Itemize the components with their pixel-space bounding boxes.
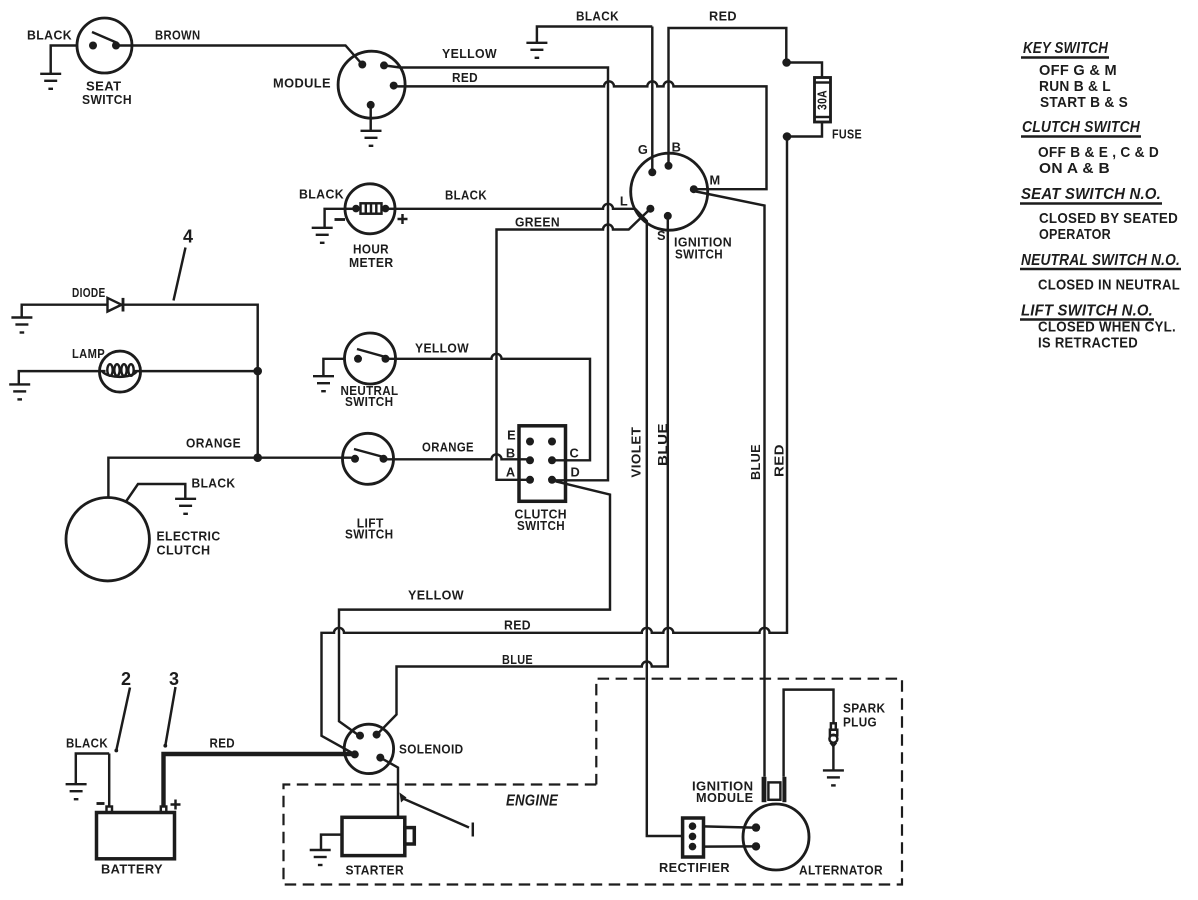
wire ignition G pin up [651, 27, 653, 173]
svg-text:ON A & B: ON A & B [1039, 161, 1110, 177]
battery plus sign [171, 800, 181, 810]
ground (starter) [310, 850, 331, 865]
svg-text:CLUTCH: CLUTCH [157, 543, 211, 558]
svg-text:BLACK: BLACK [27, 28, 72, 43]
ignition switch pin S [664, 212, 672, 220]
ground (hour meter) [312, 228, 333, 243]
svg-text:CLUTCH SWITCH: CLUTCH SWITCH [1022, 119, 1140, 136]
battery negative post [107, 807, 113, 813]
label 1 [472, 823, 474, 837]
svg-text:START B & S: START B & S [1040, 95, 1128, 111]
svg-text:FUSE: FUSE [832, 127, 862, 142]
electric clutch circle [66, 498, 149, 581]
seat switch blade [92, 32, 118, 43]
node lamp junction [253, 367, 262, 376]
svg-text:SWITCH: SWITCH [517, 518, 565, 533]
hour meter plus sign [398, 214, 408, 224]
leader line for 1 [403, 799, 469, 828]
fuse F1 30A body [815, 78, 831, 123]
svg-text:GREEN: GREEN [515, 215, 560, 230]
leader line for 4 [174, 248, 186, 301]
wire starter to ground [321, 835, 342, 850]
wire ignition module to spark plug [784, 690, 834, 777]
svg-text:ELECTRIC: ELECTRIC [157, 529, 221, 544]
lift switch blade [354, 449, 385, 457]
ground (seat switch) [40, 74, 61, 89]
ignition switch S1 circle [631, 153, 708, 230]
lift switch right contact [380, 455, 388, 463]
alternator pin top [752, 823, 760, 831]
wire VIOLET hour meter to rectifier with hop [395, 204, 683, 836]
svg-text:BLACK: BLACK [299, 187, 344, 202]
svg-text:LIFT SWITCH N.O.: LIFT SWITCH N.O. [1021, 303, 1153, 320]
diode D1 [108, 298, 122, 312]
wire BLACK top to ignition G [537, 27, 652, 43]
clutch switch pin top-right [548, 438, 556, 446]
svg-text:B: B [672, 140, 682, 155]
svg-text:RED: RED [210, 736, 236, 751]
lamp filament [103, 372, 137, 377]
leader line for 3 [166, 687, 176, 745]
wire YELLOW module to clutch switch D via vertical [384, 65, 608, 480]
solenoid pin top-left [356, 732, 364, 740]
svg-text:SWITCH: SWITCH [345, 394, 394, 409]
ground (neutral switch) [313, 376, 334, 391]
svg-text:PLUG: PLUG [843, 715, 877, 730]
svg-text:ENGINE: ENGINE [506, 793, 558, 810]
wire RED battery positive to solenoid (thick) [164, 754, 353, 807]
svg-text:BLUE: BLUE [655, 423, 670, 466]
clutch switch box [519, 426, 566, 502]
svg-text:SWITCH: SWITCH [675, 247, 723, 262]
svg-text:ALTERNATOR: ALTERNATOR [799, 863, 883, 878]
svg-text:YELLOW: YELLOW [442, 46, 497, 61]
svg-text:STARTER: STARTER [346, 863, 405, 878]
battery minus sign [97, 802, 105, 805]
svg-text:RECTIFIER: RECTIFIER [659, 860, 730, 875]
clutch switch pin E [526, 438, 534, 446]
svg-text:SWITCH: SWITCH [82, 92, 132, 107]
svg-text:LAMP: LAMP [72, 346, 105, 361]
neutral switch blade [357, 349, 387, 357]
svg-text:A: A [506, 465, 516, 480]
wire junction down to orange wire [256, 371, 258, 458]
svg-text:G: G [638, 142, 648, 157]
battery B1 [97, 813, 175, 859]
solenoid pin top-right [373, 731, 381, 739]
ground (top black wire) [526, 43, 547, 58]
ground (electric clutch) [175, 499, 196, 514]
ground (diode) [11, 318, 32, 333]
svg-text:VIOLET: VIOLET [629, 427, 644, 478]
svg-text:YELLOW: YELLOW [415, 341, 469, 356]
svg-text:RED: RED [504, 618, 531, 633]
alternator pin bottom [752, 842, 760, 850]
wire fuse bottom to junction [787, 122, 822, 137]
wire RED top from B to fuse junction [669, 28, 787, 166]
svg-text:SPARK: SPARK [843, 701, 886, 716]
wire battery negative terminal [108, 754, 110, 808]
ground (lamp) [9, 384, 30, 399]
hour meter minus sign [335, 218, 346, 221]
svg-text:E: E [507, 428, 516, 443]
wire seat switch to ground [51, 46, 77, 74]
svg-text:MODULE: MODULE [273, 76, 331, 91]
node orange junction [253, 453, 262, 462]
svg-text:B: B [506, 446, 516, 461]
svg-text:BATTERY: BATTERY [101, 862, 163, 877]
svg-text:C: C [570, 446, 580, 461]
svg-text:MODULE: MODULE [696, 790, 754, 805]
solenoid circle [344, 724, 393, 773]
svg-text:L: L [620, 194, 628, 209]
svg-text:BLACK: BLACK [192, 476, 236, 491]
svg-text:RED: RED [452, 70, 478, 85]
ignition switch pin B [665, 162, 673, 170]
leader line for 2 [117, 688, 131, 750]
ignition module body [768, 782, 780, 799]
wire diode to junction [123, 305, 258, 371]
module pin bottom [367, 101, 375, 109]
svg-text:ORANGE: ORANGE [422, 440, 474, 455]
hour meter M1 circle [345, 184, 395, 234]
wire solenoid to starter [380, 758, 398, 818]
wire BROWN seat switch to module [116, 46, 362, 65]
svg-text:BLACK: BLACK [445, 188, 487, 203]
wire ORANGE lift switch to clutch B with hop [384, 454, 530, 460]
ignition module left bar [762, 777, 767, 802]
svg-text:IS RETRACTED: IS RETRACTED [1038, 336, 1138, 352]
battery positive post [161, 807, 167, 813]
svg-text:OFF B & E , C & D: OFF B & E , C & D [1038, 145, 1159, 161]
wire GREEN clutch A to ignition L with hop [497, 209, 651, 480]
wire clutch D to yellow bottom run [339, 481, 610, 736]
wire BLUE from ignition S down to solenoid with hop [377, 216, 668, 735]
svg-text:SWITCH: SWITCH [345, 527, 394, 542]
neutral switch right contact [382, 355, 390, 363]
svg-text:30A: 30A [815, 90, 830, 110]
neutral switch left contact [354, 355, 362, 363]
clutch switch pin A [526, 476, 534, 484]
svg-text:DIODE: DIODE [72, 285, 106, 300]
wire rectifier to alternator bottom [704, 845, 754, 848]
ground (module) [361, 131, 382, 146]
wire rectifier to alternator top [704, 826, 754, 827]
ignition switch pin L [646, 205, 654, 213]
svg-text:CLOSED IN NEUTRAL: CLOSED IN NEUTRAL [1038, 278, 1180, 294]
svg-text:BLUE: BLUE [748, 444, 763, 480]
svg-text:ORANGE: ORANGE [186, 436, 241, 451]
module pin top-left [358, 61, 366, 69]
seat switch right contact [112, 42, 120, 50]
alternator circle [743, 804, 809, 870]
wire RED solenoid to fuse with hops [322, 137, 788, 754]
wire module to ground [369, 105, 371, 131]
svg-text:OFF G & M: OFF G & M [1039, 63, 1117, 79]
ground (spark plug) [823, 770, 844, 785]
svg-text:2: 2 [121, 669, 131, 689]
rectifier pin middle [689, 833, 697, 841]
module pin top-right [380, 61, 388, 69]
wire junction to fuse top [787, 63, 822, 79]
ignition switch pin G [648, 168, 656, 176]
solenoid pin left [351, 750, 359, 758]
wire electric clutch to ground [126, 484, 185, 502]
wire spark plug to ground [832, 747, 834, 771]
wire YELLOW neutral switch to clutch C with hop [386, 354, 591, 460]
wire hour meter to ground [325, 209, 345, 228]
rectifier pin bottom [689, 843, 697, 851]
starter nose [405, 828, 415, 844]
starter box [342, 817, 405, 855]
node fuse bottom junction [783, 132, 792, 141]
wire diode branch from ground [22, 305, 108, 318]
clutch switch pin C [548, 456, 556, 464]
svg-text:NEUTRAL SWITCH N.O.: NEUTRAL SWITCH N.O. [1021, 252, 1180, 269]
lamp L1 circle [100, 351, 141, 392]
wire lamp branch from ground [19, 371, 106, 384]
svg-text:S: S [657, 228, 666, 243]
module pin right [390, 82, 398, 90]
node fuse top junction [782, 58, 791, 67]
svg-text:M: M [709, 173, 720, 188]
engine dashed boundary [284, 679, 903, 885]
svg-text:BLACK: BLACK [576, 9, 619, 24]
wire BLUE from M diagonal down to ignition module [696, 192, 765, 777]
svg-text:CLOSED WHEN CYL.: CLOSED WHEN CYL. [1038, 320, 1176, 336]
spark plug P1 [831, 723, 836, 729]
wire RED module to ignition switch M with hops [394, 81, 767, 189]
svg-text:BROWN: BROWN [155, 28, 201, 43]
wire BLACK battery negative to ground [76, 754, 109, 785]
svg-text:BLUE: BLUE [502, 652, 533, 667]
svg-text:BLACK: BLACK [66, 736, 108, 751]
svg-text:YELLOW: YELLOW [408, 588, 465, 603]
wire neutral switch to ground [323, 359, 344, 376]
svg-text:OPERATOR: OPERATOR [1039, 227, 1111, 243]
ignition switch pin M [690, 185, 698, 193]
svg-text:D: D [571, 465, 581, 480]
svg-text:KEY SWITCH: KEY SWITCH [1023, 40, 1108, 57]
rectifier box [683, 818, 704, 857]
ground (battery black) [66, 784, 87, 799]
clutch switch pin B [526, 456, 534, 464]
svg-text:SEAT SWITCH N.O.: SEAT SWITCH N.O. [1021, 186, 1161, 203]
arrowhead for 1 [400, 793, 407, 803]
module U1 circle [338, 51, 405, 118]
clutch switch pin D [548, 476, 556, 484]
neutral switch circle [345, 333, 396, 384]
lift switch left contact [351, 455, 359, 463]
wire lamp to junction [134, 370, 258, 372]
ignition module right bar [782, 777, 786, 802]
lift switch circle [343, 433, 394, 484]
hour meter internal resistor [345, 208, 356, 210]
svg-text:3: 3 [169, 669, 179, 689]
svg-text:RED: RED [709, 9, 737, 24]
svg-text:RUN B & L: RUN B & L [1039, 79, 1111, 95]
svg-text:METER: METER [349, 255, 394, 270]
seat switch SW1 circle [77, 18, 132, 73]
solenoid pin bottom [376, 754, 384, 762]
svg-text:CLOSED BY SEATED: CLOSED BY SEATED [1039, 211, 1178, 227]
svg-text:4: 4 [183, 227, 193, 247]
svg-text:RED: RED [772, 444, 787, 477]
wire ORANGE electric clutch to lift switch [108, 458, 355, 498]
rectifier pin top [689, 822, 697, 830]
seat switch left contact [89, 42, 97, 50]
svg-text:SOLENOID: SOLENOID [399, 742, 464, 757]
